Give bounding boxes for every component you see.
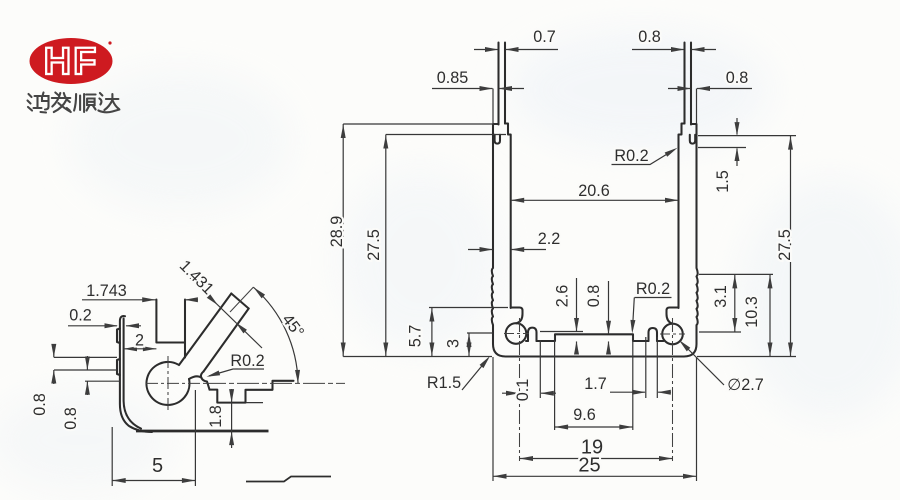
dim 0.85 (left wall ledge) — [432, 88, 524, 90]
dim 0.8 (right fin width) — [632, 49, 716, 51]
svg-text:28.9: 28.9 — [328, 216, 346, 248]
dim 27.5 (right height) — [697, 136, 796, 357]
detail: 45deg angle ray — [230, 287, 254, 312]
leader R0.2 top — [612, 150, 675, 165]
svg-text:20.6: 20.6 — [578, 182, 610, 200]
svg-text:1.7: 1.7 — [584, 375, 607, 393]
dim 9.6 — [555, 336, 633, 430]
left screw boss circle — [506, 323, 527, 344]
svg-text:0.7: 0.7 — [533, 28, 556, 46]
detail: neck between circle and notch — [189, 376, 201, 379]
right wall outer groove R0.2 — [690, 135, 695, 144]
svg-text:0.8: 0.8 — [726, 69, 749, 87]
detail: arm tip face — [231, 294, 248, 309]
svg-text:5: 5 — [152, 455, 163, 477]
svg-text:0.2: 0.2 — [69, 307, 92, 325]
svg-text:2.2: 2.2 — [538, 230, 561, 248]
detail: circle vertical centerline — [167, 356, 169, 411]
right rib — [649, 328, 658, 341]
dim 25 — [493, 357, 697, 481]
svg-text:R1.5: R1.5 — [427, 374, 461, 392]
ext line right wall outer up — [696, 89, 698, 124]
detail: left thin plate outer edge + bottom outer corner — [120, 316, 152, 432]
svg-text:R0.2: R0.2 — [636, 280, 670, 298]
svg-text:0.8: 0.8 — [638, 28, 661, 46]
left wall inner step — [505, 124, 511, 309]
dim 3 — [467, 333, 493, 357]
dim 1.8 — [232, 389, 263, 448]
svg-text:R0.2: R0.2 — [614, 147, 648, 165]
left wall outer groove R0.2 — [495, 135, 500, 144]
left boss horizontal centerline — [504, 333, 529, 335]
leader R1.5 — [462, 359, 488, 391]
svg-text:2.6: 2.6 — [554, 285, 572, 308]
right screw boss circle — [662, 324, 683, 345]
detail: R0.2 notch at arm root — [201, 372, 210, 390]
dim 2.2 (wall thickness) — [468, 249, 546, 251]
dim 20.6 (inner width) — [511, 199, 679, 201]
dim 0.8 (right wall ledge) — [668, 88, 752, 90]
right interior hook lip — [667, 308, 679, 324]
dimensions placeholder — [31, 28, 796, 486]
dim 0.1 — [502, 340, 556, 398]
U-channel outer body with serrated sides and rounded bottom corners — [492, 124, 698, 357]
detail: 45deg arm left edge — [179, 294, 231, 366]
svg-text:27.5: 27.5 — [776, 229, 794, 261]
char shun — [74, 94, 96, 112]
floor segment left of left rib — [526, 340, 528, 342]
svg-text:0.85: 0.85 — [437, 69, 469, 87]
detail: break line symbol — [246, 477, 331, 482]
dim 28.9 (left outer height) — [343, 124, 497, 357]
logo registered mark — [108, 41, 111, 44]
detail: bottom edge thick line — [136, 430, 269, 433]
detail: circle horizontal centerline — [146, 382, 204, 384]
dim 19 — [520, 458, 673, 460]
ext line left wall outer up — [492, 89, 494, 124]
dim 1.5 (right wall step) — [698, 118, 796, 166]
char hong — [28, 93, 49, 113]
dim 1.431 (45deg) — [190, 278, 262, 348]
dim 0.8 upper left — [54, 344, 117, 384]
svg-text:R0.2: R0.2 — [230, 352, 264, 370]
detail: top step (1.743 pocket) — [156, 300, 185, 343]
main profile placeholder — [492, 43, 698, 462]
right wall top fin — [685, 43, 692, 125]
dim 0.2 — [68, 325, 141, 327]
left detail placeholder — [117, 287, 345, 482]
dim 0.8 lower — [85, 356, 120, 395]
detail: step right leg down to circle — [184, 343, 186, 358]
svg-text:5.7: 5.7 — [407, 325, 425, 348]
leader R0.2 detail — [209, 369, 264, 376]
char da — [98, 93, 119, 112]
svg-text:25: 25 — [578, 455, 600, 477]
svg-text:2: 2 — [135, 332, 144, 350]
right boss centerline — [672, 318, 674, 461]
floor segment right of right rib — [657, 340, 664, 342]
detail: horizontal angle ray — [204, 382, 345, 384]
svg-text:27.5: 27.5 — [365, 229, 383, 261]
svg-text:0.8: 0.8 — [585, 285, 603, 308]
svg-text:HF: HF — [44, 41, 99, 83]
svg-text:1.743: 1.743 — [86, 282, 127, 300]
svg-text:∅2.7: ∅2.7 — [727, 376, 764, 394]
svg-text:1.8: 1.8 — [207, 405, 225, 428]
logo red ellipse — [30, 38, 113, 84]
left interior hook lip — [511, 308, 523, 324]
detail: main circle — [146, 362, 189, 405]
dim 1.7 — [610, 337, 671, 398]
svg-text:0.8: 0.8 — [31, 393, 49, 416]
left wall top fin — [499, 43, 506, 125]
svg-text:9.6: 9.6 — [573, 406, 596, 424]
left boss centerline — [519, 318, 521, 461]
dim 1.743 — [82, 299, 198, 301]
detail: plate inner edge — [124, 319, 141, 429]
dim 0.7 (left fin width) — [474, 49, 558, 51]
dim 5.7 — [429, 308, 508, 357]
detail: 45deg arm right edge — [204, 309, 249, 372]
detail: plate tooth upper — [117, 329, 120, 344]
interior floor with center platform — [537, 334, 649, 341]
svg-text:3: 3 — [445, 339, 463, 348]
dim 5 — [112, 390, 195, 486]
dim 10.3 — [769, 274, 771, 356]
svg-text:3.1: 3.1 — [712, 285, 730, 308]
dim 2.6 (hook height) — [540, 278, 583, 352]
dim 0.8 (platform height) — [608, 281, 610, 352]
leader R0.2 bottom — [632, 298, 671, 331]
svg-text:1.5: 1.5 — [714, 170, 732, 193]
left rib — [528, 328, 537, 341]
detail: plate tooth lower — [117, 359, 120, 375]
leader dia 2.7 — [681, 342, 724, 385]
detail: right ledge with 1.8 notch — [210, 381, 294, 403]
right boss horizontal centerline — [660, 333, 685, 335]
angle dim 45 arc — [254, 287, 299, 383]
svg-text:0.8: 0.8 — [62, 407, 80, 430]
svg-text:10.3: 10.3 — [743, 296, 761, 328]
char fa — [52, 93, 71, 113]
svg-text:0.1: 0.1 — [514, 379, 532, 402]
company name placeholder — [28, 93, 120, 113]
dim 3.1 — [699, 274, 773, 332]
right wall inner step — [679, 124, 685, 309]
dim 27.5 (left inner height) — [386, 135, 506, 357]
dim 2 — [124, 348, 157, 350]
